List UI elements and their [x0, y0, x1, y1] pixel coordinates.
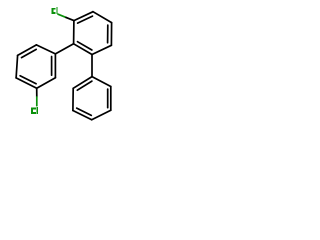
bond ring3 (bottom phenyl) edge L-G: [92, 77, 111, 87]
atom label Cl (bottom): [31, 108, 36, 114]
atom label Cl (top): [52, 8, 56, 14]
chemical structure: dichloro-ortho-terphenyl: [0, 0, 130, 130]
bond to Cl bottom, green half: [36, 97, 38, 106]
bond ring3 (bottom phenyl) edge I-J: [73, 111, 92, 120]
double bond inner line ring3 (bottom phenyl) G-H: [77, 81, 92, 90]
double bond inner line ring1 (central) E-F: [107, 25, 109, 43]
bond ring2 (left 3-chlorophenyl) edge T-TR: [36, 45, 55, 54]
double bond inner line ring3 (bottom phenyl) K-L: [107, 89, 109, 108]
bond to Cl top, green half: [58, 14, 66, 17]
bond ring2 (left 3-chlorophenyl) edge BB-BL: [16, 78, 37, 88]
double bond inner line ring2 (left 3-chlorophenyl) BB-BL: [20, 76, 36, 84]
bond ring1 (central) edge B-C: [73, 21, 75, 44]
bond ring3 (bottom phenyl) edge G-H: [73, 77, 92, 89]
bond to Cl bottom, black half: [36, 88, 38, 97]
bond ring1 (central) edge C-D: [74, 44, 92, 55]
bond ring1 (central) edge E-F: [110, 23, 112, 46]
double bond inner line ring3 (bottom phenyl) I-J: [77, 108, 92, 115]
bond ring2 (left 3-chlorophenyl) edge TL-T: [18, 45, 37, 56]
bond ring3 (bottom phenyl) edge J-K: [92, 110, 111, 120]
bond ring2 (left 3-chlorophenyl) edge BL-TL: [16, 55, 18, 78]
double bond inner line ring2 (left 3-chlorophenyl) TL-T: [22, 49, 37, 57]
double bond inner line ring1 (central) A-B: [78, 16, 93, 23]
bond ring2 (left 3-chlorophenyl) edge BR-BB: [37, 78, 56, 89]
bond ring2 (left 3-chlorophenyl) edge TR-BR: [54, 54, 56, 78]
double bond inner line ring2 (left 3-chlorophenyl) TR-BR: [51, 57, 53, 76]
bond ring1 (central) edge A-B: [74, 12, 93, 21]
bond ring3 (bottom phenyl) edge H-I: [72, 88, 74, 110]
double bond inner line ring1 (central) C-D: [78, 42, 92, 50]
bond ring3 (bottom phenyl) edge K-L: [110, 87, 112, 111]
bond to Cl top, black half: [66, 17, 74, 20]
bond ring1 (central) edge D-E: [92, 45, 111, 54]
bond biaryl ring1 D - ring3 G: [91, 55, 93, 77]
bond ring1 (central) edge F-A: [93, 12, 112, 23]
bond biaryl ring1 C - ring2 TR: [55, 44, 73, 54]
